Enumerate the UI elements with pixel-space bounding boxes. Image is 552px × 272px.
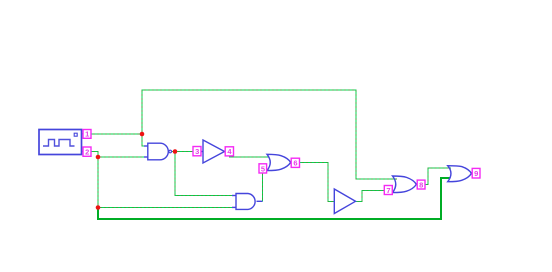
signal generator G1 body (39, 130, 82, 155)
pin label 7 (384, 186, 392, 195)
buffer U5 (334, 189, 355, 214)
signal generator G1 indicator square (74, 133, 77, 136)
or gate U4 (267, 154, 291, 170)
svg-text:6: 6 (293, 159, 297, 168)
pin label 6 (291, 158, 299, 168)
wire net2 junction B down to junction C (97, 157, 99, 208)
svg-text:3: 3 (195, 147, 199, 156)
or gate U6 (393, 176, 417, 193)
buffer U2 (201, 140, 225, 163)
signal generator G1 waveform glyph (43, 140, 75, 147)
svg-text:7: 7 (386, 186, 390, 195)
junction dot C (96, 205, 101, 210)
pin label 3 (193, 147, 201, 157)
svg-text:9: 9 (474, 169, 478, 178)
wire net8 from pin 8 to final OR top input (425, 168, 451, 184)
svg-text:2: 2 (85, 148, 89, 157)
svg-text:1: 1 (85, 130, 89, 139)
wire net2 bright segment junction C to final OR bottom input (98, 178, 450, 219)
nand gate U1 (148, 143, 172, 160)
wire net1 junction A to NAND top input (142, 134, 148, 146)
pin label 1 (83, 130, 91, 139)
wire net1 feedback loop top (142, 90, 397, 179)
svg-text:5: 5 (261, 164, 265, 173)
wire net3 junction D down to AND upper input (175, 152, 236, 196)
wire net1 from pin 1 to junction A (91, 133, 142, 135)
pin label 9 (472, 168, 480, 178)
wire net6 from pin 6 to buffer U5 input (300, 162, 334, 201)
wire net4 from pin 4 to OR1 top input (230, 156, 270, 157)
junction dot A (140, 132, 145, 137)
nand gate U1 input stubs (144, 146, 148, 157)
pin label 4 (225, 147, 233, 156)
wire net2 from pin 2 to junction B (91, 152, 98, 158)
pin label 2 (83, 147, 91, 157)
pin label 5 (259, 164, 267, 174)
wire net2 junction C to AND lower input (98, 207, 236, 209)
svg-text:8: 8 (419, 180, 423, 189)
and gate U3 (236, 194, 263, 210)
wire net2 junction B to NAND bottom input (98, 156, 148, 158)
or gate U7 (448, 166, 472, 182)
signal generator pin stub to pin 1 (82, 133, 84, 135)
pin label 8 (417, 180, 425, 189)
junction dot D at NAND output (173, 149, 178, 154)
wire net3 NAND output to pin 3 (172, 151, 193, 153)
signal generator pin stub to pin 2 (82, 151, 84, 153)
wire net5 AND output up to pin 5 (262, 173, 264, 201)
and gate U3 input stubs (232, 196, 236, 208)
junction dot B (96, 155, 101, 160)
wire net7 buffer U5 output to pin 7 (356, 191, 385, 202)
